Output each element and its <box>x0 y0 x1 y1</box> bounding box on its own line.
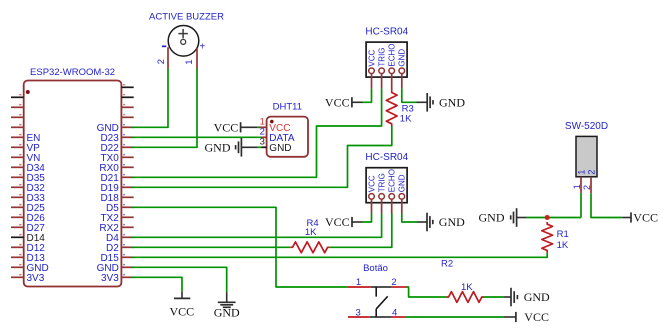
svg-text:HC-SR04: HC-SR04 <box>365 152 408 163</box>
svg-text:TRIG: TRIG <box>378 47 387 66</box>
svg-text:1: 1 <box>576 170 586 175</box>
svg-text:VCC: VCC <box>524 310 549 324</box>
svg-text:3V3: 3V3 <box>27 273 45 284</box>
svg-text:GND: GND <box>439 215 465 229</box>
svg-text:ECHO: ECHO <box>388 169 397 192</box>
svg-text:GND: GND <box>214 306 240 320</box>
svg-text:GND: GND <box>479 211 505 225</box>
svg-text:1: 1 <box>356 277 361 288</box>
svg-text:VCC: VCC <box>214 120 239 134</box>
svg-text:ESP32-WROOM-32: ESP32-WROOM-32 <box>30 67 115 78</box>
svg-text:3: 3 <box>260 137 265 148</box>
svg-text:TRIG: TRIG <box>378 173 387 192</box>
svg-text:GND: GND <box>439 95 465 109</box>
svg-text:VCC: VCC <box>325 215 350 229</box>
svg-text:VCC: VCC <box>633 211 658 225</box>
svg-text:GND: GND <box>269 143 291 154</box>
svg-text:R1: R1 <box>557 229 569 240</box>
svg-text:2: 2 <box>586 170 596 175</box>
svg-text:4: 4 <box>392 307 397 318</box>
svg-text:GND: GND <box>398 49 407 67</box>
svg-text:1K: 1K <box>557 240 569 251</box>
svg-text:1K: 1K <box>461 282 473 293</box>
svg-text:VCC: VCC <box>367 175 376 192</box>
svg-text:1K: 1K <box>305 227 317 238</box>
svg-text:VCC: VCC <box>169 305 194 319</box>
svg-text:GND: GND <box>524 290 550 304</box>
svg-text:ECHO: ECHO <box>388 43 397 66</box>
svg-text:3: 3 <box>356 307 361 318</box>
svg-text:3V3: 3V3 <box>101 273 119 284</box>
svg-text:2: 2 <box>156 59 167 64</box>
svg-text:2: 2 <box>391 277 396 288</box>
svg-text:DHT11: DHT11 <box>273 102 302 113</box>
svg-text:GND: GND <box>398 174 407 192</box>
svg-text:HC-SR04: HC-SR04 <box>365 27 408 38</box>
svg-text:VCC: VCC <box>325 95 350 109</box>
svg-text:1: 1 <box>184 59 195 64</box>
svg-text:1K: 1K <box>400 113 412 124</box>
svg-text:VCC: VCC <box>367 49 376 66</box>
svg-text:R2: R2 <box>441 258 453 269</box>
svg-text:+: + <box>199 42 205 53</box>
svg-text:ACTIVE BUZZER: ACTIVE BUZZER <box>149 12 224 23</box>
svg-text:SW-520D: SW-520D <box>565 121 608 132</box>
svg-text:GND: GND <box>205 140 231 154</box>
svg-text:Botão: Botão <box>363 263 388 274</box>
